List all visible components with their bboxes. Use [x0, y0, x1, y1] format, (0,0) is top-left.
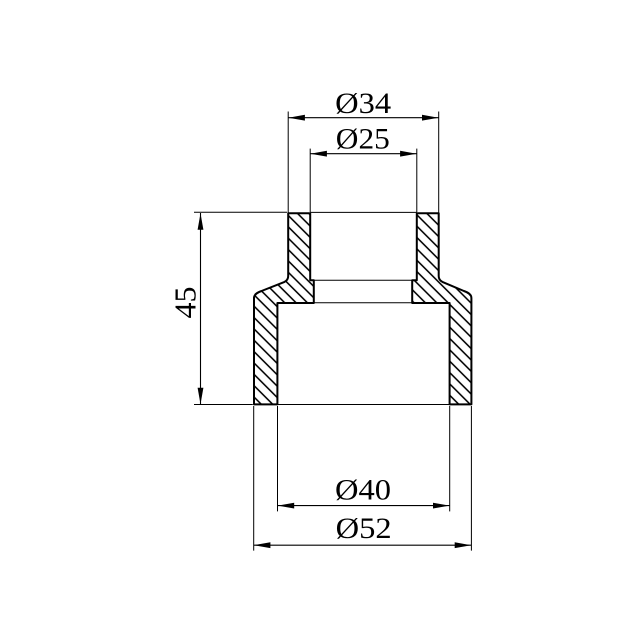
dimension 45 extension lines — [194, 212, 287, 404]
svg-text:Ø52: Ø52 — [336, 512, 392, 545]
left wall section hatching — [254, 213, 314, 404]
dimension Ø40 arrows — [278, 503, 295, 509]
socket stop face — [314, 302, 412, 304]
dimension Ø34 line — [288, 117, 439, 119]
right wall outline — [412, 213, 471, 404]
bottom mouth edge line — [277, 404, 449, 406]
svg-text:Ø34: Ø34 — [335, 87, 391, 120]
top mouth edge line — [310, 211, 417, 213]
dimension 45 line — [200, 213, 202, 404]
dimension Ø40 extension lines — [278, 406, 450, 511]
ridge edge line — [314, 279, 412, 281]
dimension Ø25 arrows — [310, 151, 327, 157]
dimension Ø52 line — [254, 544, 472, 546]
dimension Ø52 extension lines — [254, 406, 472, 551]
right wall section hatching — [412, 213, 471, 404]
dimension Ø25 extension lines — [310, 149, 417, 212]
dimension Ø52 arrows — [254, 542, 271, 548]
svg-text:Ø40: Ø40 — [335, 473, 391, 506]
left wall outline — [254, 213, 314, 404]
dimension Ø25 line — [310, 153, 417, 155]
svg-text:Ø25: Ø25 — [336, 122, 390, 155]
dimension Ø34 arrows — [288, 115, 305, 121]
dimension Ø40 line — [278, 505, 450, 507]
dimension Ø34 extension lines — [288, 112, 439, 213]
dimension 45 arrows — [198, 213, 204, 230]
svg-text:45: 45 — [167, 287, 202, 319]
